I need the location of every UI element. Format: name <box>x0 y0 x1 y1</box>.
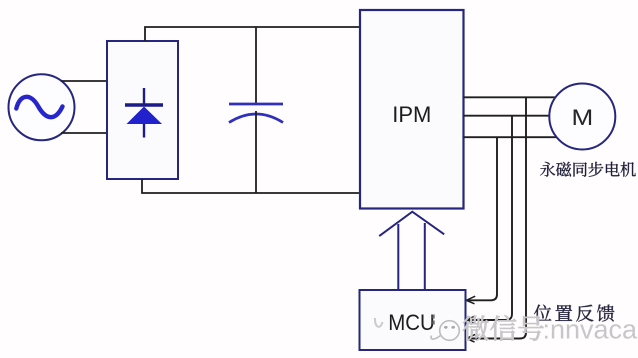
label 永磁同步电机 <box>540 162 555 177</box>
bus arrow MCU to IPM <box>379 212 444 290</box>
wire bottom bus rectifier to IPM <box>142 179 360 193</box>
MCU U2 <box>360 290 466 350</box>
svg-text::nnvaca: :nnvaca <box>543 315 638 345</box>
label 位置反馈 <box>534 305 551 322</box>
watermark text 微信号:nnvaca <box>463 316 489 341</box>
svg-text:MCU: MCU <box>388 310 435 335</box>
wire top bus rectifier to IPM <box>145 27 360 41</box>
wire capacitor bottom lead <box>255 111 257 193</box>
watermark stray mark <box>375 318 383 327</box>
svg-text:IPM: IPM <box>392 102 431 127</box>
watermark WeChat icon <box>431 321 459 341</box>
wire AC bottom to rectifier <box>61 132 107 134</box>
diode D1 <box>125 88 163 138</box>
capacitor C1 <box>229 104 283 123</box>
watermark stray dashes <box>433 315 435 319</box>
wire capacitor top lead <box>255 27 257 104</box>
wire IPM to motor phase 2 <box>464 115 551 117</box>
feedback wire 3 from phase3 to MCU upper input <box>467 137 497 300</box>
wire IPM to motor phase 1 <box>464 96 557 98</box>
motor M <box>549 84 615 150</box>
svg-text:M: M <box>571 106 593 131</box>
AC source V1 <box>9 74 75 140</box>
IPM module U1 <box>360 10 464 209</box>
feedback wire 1 from phase1 to MCU lower input <box>467 97 526 338</box>
rectifier BR1 <box>107 41 178 179</box>
wire AC top to rectifier <box>61 80 107 82</box>
feedback wire 2 from phase2 to MCU middle input <box>467 116 512 320</box>
wire IPM to motor phase 3 <box>464 136 557 138</box>
